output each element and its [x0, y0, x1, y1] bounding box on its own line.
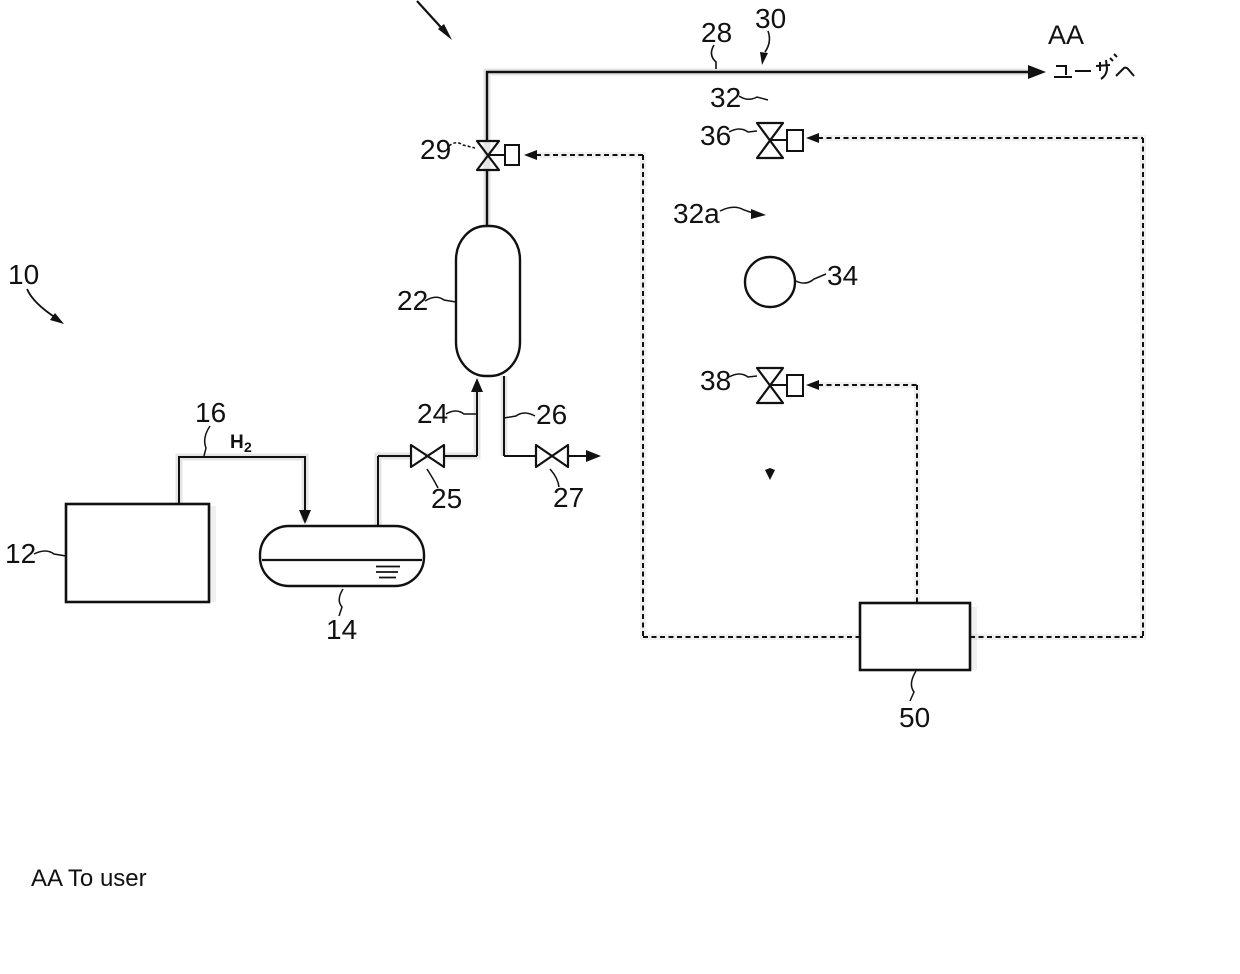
svg-text:27: 27 — [553, 482, 584, 513]
wire: line 26 from vessel — [503, 376, 505, 456]
arrowhead marker (vent direction) — [765, 468, 775, 480]
label H2 — [230, 432, 252, 455]
svg-text:30: 30 — [755, 3, 786, 34]
wire: dashed control line to valve 38 — [806, 380, 917, 390]
svg-text:AA To user: AA To user — [31, 865, 147, 892]
wire: line 24 with arrow into vessel — [471, 378, 483, 456]
label 29 — [420, 134, 475, 165]
svg-text:24: 24 — [417, 398, 448, 429]
svg-text:50: 50 — [899, 702, 930, 733]
text: to user (katakana) — [1054, 54, 1134, 79]
svg-text:28: 28 — [701, 17, 732, 48]
label 36 — [700, 120, 757, 151]
vessel 22 (buffer tank) — [456, 226, 520, 376]
svg-text:12: 12 — [5, 538, 36, 569]
label 12 — [5, 538, 66, 569]
svg-text:AA: AA — [1048, 20, 1084, 50]
valve 29 — [477, 141, 519, 170]
svg-text:25: 25 — [431, 483, 462, 514]
valve 27 — [536, 445, 568, 467]
label 32a — [673, 198, 766, 229]
wire: main delivery line halo — [179, 72, 1038, 526]
wire: dashed control line to valve 36 — [806, 133, 1143, 143]
gauge 34 (pressure sensor) — [745, 257, 795, 307]
text: AA To user (bottom note) — [31, 865, 147, 892]
label 32 — [710, 82, 768, 113]
label 27 — [550, 469, 584, 513]
svg-text:14: 14 — [326, 614, 357, 645]
svg-text:34: 34 — [827, 260, 858, 291]
figure leader arrow (top) — [417, 1, 452, 40]
svg-text:36: 36 — [700, 120, 731, 151]
label 26 — [504, 399, 567, 430]
wire: pipe from valve29 up and main line to user — [487, 65, 1046, 227]
svg-text:16: 16 — [195, 397, 226, 428]
label 30 — [755, 3, 786, 65]
wire: H2 line 16 from box 12 to tank 14 — [179, 457, 311, 524]
box 12 (hydrogen source) — [66, 504, 209, 602]
wire: middle dashed signal line to controller — [916, 385, 918, 603]
label 14 — [326, 589, 357, 645]
label 10 — [8, 259, 64, 324]
svg-text:26: 26 — [536, 399, 567, 430]
label 16 — [195, 397, 226, 456]
valve 38 — [757, 368, 803, 403]
svg-text:2: 2 — [244, 439, 252, 455]
svg-text:38: 38 — [700, 365, 731, 396]
svg-text:22: 22 — [397, 285, 428, 316]
tank 14 (liquid hydrogen tank) — [260, 526, 424, 586]
controller box 50 — [860, 603, 970, 670]
wire: right dashed signal line — [1142, 138, 1144, 637]
wire: vent line through valve 27 with arrow — [504, 450, 601, 462]
svg-text:H: H — [230, 432, 244, 453]
label AA (top right) — [1048, 20, 1084, 50]
valve 25 — [411, 445, 444, 467]
svg-text:10: 10 — [8, 259, 39, 290]
label 50 — [899, 671, 930, 733]
svg-text:32a: 32a — [673, 198, 720, 229]
wire: left dashed signal line — [642, 155, 644, 637]
label 25 — [427, 469, 462, 514]
label 34 — [796, 260, 858, 291]
label 24 — [417, 398, 477, 429]
wire: bottom dashed signal line — [643, 636, 1143, 638]
valve 36 — [757, 123, 803, 158]
wire: dashed control line to valve 29 — [524, 150, 643, 160]
svg-text:32: 32 — [710, 82, 741, 113]
svg-text:29: 29 — [420, 134, 451, 165]
label 28 — [701, 17, 732, 69]
wire: feed line from tank riser through valve 25 — [378, 456, 477, 526]
label 38 — [700, 365, 757, 396]
label 22 — [397, 285, 456, 316]
